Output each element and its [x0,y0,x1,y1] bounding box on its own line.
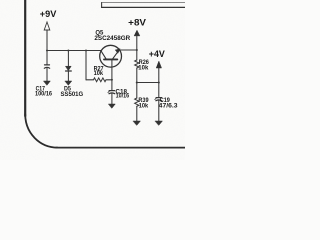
upper block top edge [102,2,186,4]
transistor emitter lead [112,49,119,59]
resistor R39 [135,98,139,106]
transistor collector lead [101,51,107,60]
wire base down [111,60,113,80]
block border bottom edge [56,147,186,149]
wire emitter to +8V node [119,49,136,51]
resistor R26 [135,60,139,68]
wire +8V down [136,36,138,50]
ground C17 [44,81,51,85]
block border left edge [24,0,26,116]
wire +4V down [158,68,160,83]
block border rounded corner [25,114,57,148]
ground D5 [65,81,72,85]
wire node to C19 [158,83,160,98]
+8V arrow [134,30,140,36]
transistor base bar [104,58,117,60]
node bus-R27 [85,50,87,52]
node +4V [158,81,160,83]
wire base node to C18 [111,80,113,90]
wire +9V down [46,30,48,51]
upper block bottom edge [102,6,186,8]
wire R39 to ground [136,106,138,121]
node emitter +8V [136,49,138,51]
ground C18 [109,104,116,108]
wire C17 drop [46,51,48,65]
+9V arrow [44,22,50,30]
capacitor C18 [108,91,115,94]
node bus-D5 [67,50,69,52]
transistor Q5 circle [100,45,122,67]
node base-R27-C18 [111,79,113,81]
wire +4V link [137,82,159,84]
node R26-R39 [136,81,138,83]
wire R27 branch down [85,51,87,80]
node bus-C17 [46,50,48,52]
wire C19 to ground [158,101,160,121]
wire node to R26 [136,50,138,60]
ground R39 [133,121,140,125]
resistor R27 [86,78,112,82]
ground C19 [155,121,162,125]
diode D5 [66,66,72,71]
wire node to R39 [136,83,138,99]
upper block left edge [101,3,103,8]
capacitor C17 [44,65,49,68]
wire +9V bus [47,50,101,52]
wire D5 drop [67,51,69,67]
wire C17 to ground [46,68,48,81]
transistor emitter arrow [115,49,120,53]
wire C18 to ground [111,94,113,104]
+4V arrow [156,61,161,68]
wire R26 to node [136,68,138,83]
capacitor C19 [155,98,162,101]
wire D5 to ground [67,71,69,81]
